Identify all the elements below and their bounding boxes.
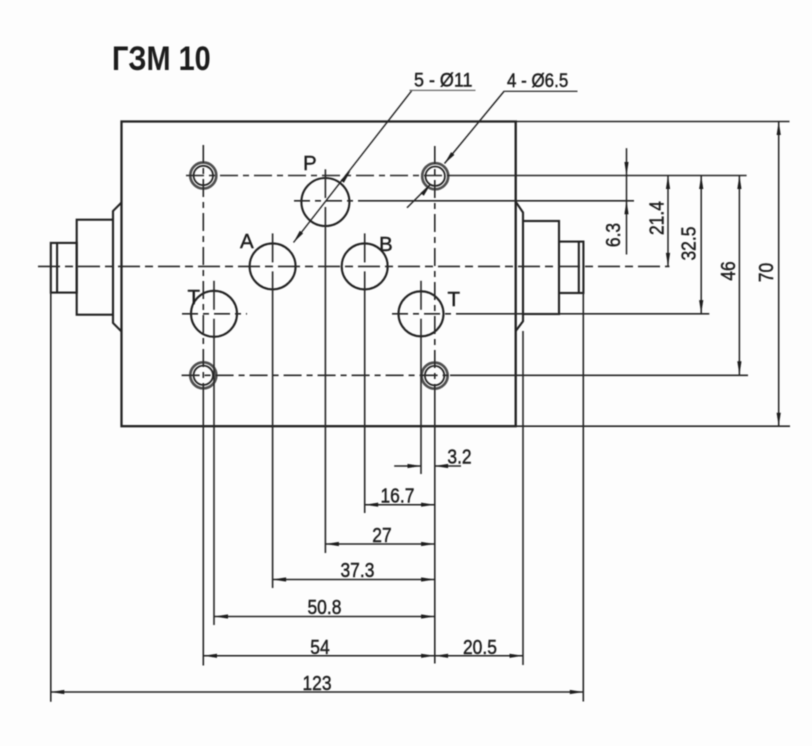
extension line flange right for 20.5 xyxy=(522,331,524,665)
arrow 54 left xyxy=(204,654,218,658)
centerline T-left horizontal xyxy=(182,313,247,315)
dimension line 50.8 xyxy=(215,616,435,618)
left small block xyxy=(51,243,77,293)
svg-text:T: T xyxy=(188,286,201,309)
leader line 5-O11 xyxy=(294,90,413,242)
arrow 16.7 left xyxy=(365,503,379,507)
arrow 3.2 right (outside pointing left) xyxy=(435,464,449,468)
arrow 70 bottom xyxy=(777,413,781,427)
arrow 27 left xyxy=(325,542,339,546)
arrow 3.2 left (outside pointing right) xyxy=(408,464,422,468)
svg-text:6.3: 6.3 xyxy=(603,223,626,247)
port T left circle xyxy=(191,291,237,337)
left small block inner line xyxy=(56,243,58,293)
dimension line 27 xyxy=(325,543,434,545)
arrow 32.5 bottom xyxy=(699,300,703,314)
arrow 20.5 left xyxy=(435,654,449,658)
arrow 27 right xyxy=(421,542,435,546)
port B vertical centerline and extension xyxy=(364,233,366,262)
left middle block xyxy=(77,220,113,315)
extension line left block edge for 123 xyxy=(50,293,52,702)
centerline top holes horizontal xyxy=(186,175,450,177)
svg-text:21.4: 21.4 xyxy=(646,201,669,235)
dimension line 70 xyxy=(778,122,780,427)
dimension line 20.5 xyxy=(435,655,523,657)
arrow 32.5 top xyxy=(699,176,703,190)
top edge extension line xyxy=(516,121,790,123)
svg-text:32.5: 32.5 xyxy=(678,227,701,261)
arrow 20.5 right xyxy=(510,654,524,658)
svg-text:50.8: 50.8 xyxy=(308,597,342,620)
svg-text:5 - Ø11: 5 - Ø11 xyxy=(414,69,472,91)
arrow 16.7 right xyxy=(421,503,435,507)
leader 4-O6.5 lower arrow xyxy=(421,184,431,195)
dimension line 54 xyxy=(204,655,435,657)
arrow 6.3 bottom (outside pointing up) xyxy=(624,201,628,215)
mounting hole top-right xyxy=(422,163,448,189)
dimension line 46 xyxy=(738,176,740,375)
left flange strip xyxy=(113,203,122,332)
extension line right block edge for 123 xyxy=(582,293,584,702)
svg-text:54: 54 xyxy=(310,637,330,660)
arrow 21.4 top xyxy=(666,176,670,190)
right small block xyxy=(559,242,583,293)
centerline right holes vertical column xyxy=(434,146,436,385)
arrow 70 top xyxy=(777,122,781,136)
port P circle xyxy=(301,178,349,226)
svg-text:3.2: 3.2 xyxy=(447,446,471,469)
svg-text:123: 123 xyxy=(303,673,332,696)
dimension line 32.5 xyxy=(700,176,702,314)
arrow 21.4 bottom xyxy=(666,253,670,267)
right middle block xyxy=(523,221,559,314)
port T-left vertical centerline and extension xyxy=(213,281,215,310)
centerline left holes vertical column xyxy=(202,145,204,385)
port T right circle xyxy=(399,291,444,336)
svg-text:20.5: 20.5 xyxy=(463,637,497,660)
port B circle xyxy=(342,243,388,289)
port P vertical centerline and extension xyxy=(324,169,326,198)
svg-text:B: B xyxy=(379,233,393,256)
mounting hole bottom-left xyxy=(190,362,216,388)
right small block inner line xyxy=(578,242,580,293)
dimension line 21.4 xyxy=(667,176,669,267)
svg-text:27: 27 xyxy=(372,525,391,548)
port A circle xyxy=(250,243,296,289)
arrow 46 top xyxy=(737,176,741,190)
centerline T-right horizontal xyxy=(392,313,460,315)
arrow 50.8 left xyxy=(215,614,229,618)
dimension line 3.2 xyxy=(394,465,421,467)
centerline bottom holes horizontal xyxy=(182,374,450,376)
arrow 123 right xyxy=(570,690,584,694)
leader 4-O6.5 underline xyxy=(504,90,577,92)
bottom edge extension line xyxy=(516,425,790,427)
dimension line 16.7 xyxy=(365,504,435,506)
svg-text:P: P xyxy=(303,152,317,175)
leader 4-O6.5 arrow at hole xyxy=(445,152,455,163)
arrow 37.3 right xyxy=(421,577,435,581)
arrow 54 right xyxy=(421,654,435,658)
leader 5-O11 underline xyxy=(410,89,476,91)
plate outline xyxy=(122,122,516,427)
port T-right vertical centerline and extension xyxy=(420,281,422,310)
svg-text:37.3: 37.3 xyxy=(341,560,375,583)
centerline P horizontal xyxy=(294,200,360,202)
svg-text:4 - Ø6.5: 4 - Ø6.5 xyxy=(507,69,568,91)
dimension line 123 xyxy=(51,691,584,693)
svg-text:46: 46 xyxy=(718,261,741,280)
dimension line 37.3 xyxy=(273,579,435,581)
svg-text:T: T xyxy=(448,288,461,311)
svg-text:ГЗМ 10: ГЗМ 10 xyxy=(112,39,211,78)
arrow 123 left xyxy=(51,690,65,694)
svg-text:A: A xyxy=(240,230,254,253)
right flange strip xyxy=(516,202,523,331)
svg-text:70: 70 xyxy=(756,263,779,282)
leader 5-O11 end arrow xyxy=(294,231,304,243)
arrow 46 bottom xyxy=(737,361,741,375)
svg-text:16.7: 16.7 xyxy=(381,485,415,508)
leader line 4-O6.5 xyxy=(407,91,504,208)
leader 5-O11 mid arrow xyxy=(341,171,351,183)
arrow 6.3 top (outside pointing down) xyxy=(624,162,628,176)
arrow 37.3 left xyxy=(273,577,287,581)
centerline A-B horizontal xyxy=(38,265,669,267)
mounting hole top-left xyxy=(190,163,216,189)
dimension line 6.3 xyxy=(626,148,628,254)
mounting hole bottom-right xyxy=(422,363,448,389)
port A vertical centerline and extension xyxy=(272,233,274,262)
arrow 50.8 right xyxy=(421,614,435,618)
